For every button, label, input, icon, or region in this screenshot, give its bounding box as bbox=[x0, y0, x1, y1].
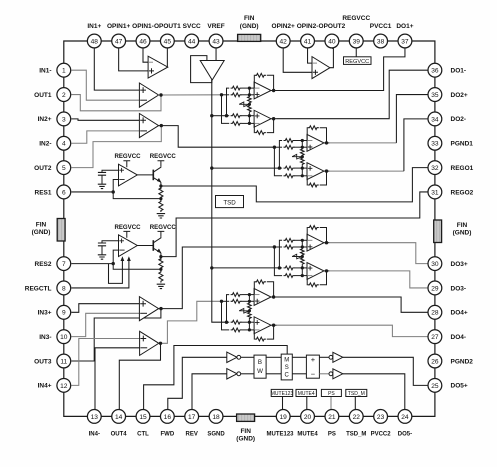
wire DO3- BTL3 lower output to pin29 bbox=[329, 271, 427, 288]
wire OUT1 pin2 to A1 output node bbox=[71, 95, 161, 111]
svg-text:FIN: FIN bbox=[240, 428, 251, 435]
svg-text:FWD: FWD bbox=[161, 431, 175, 437]
op-amp A4 bbox=[140, 331, 159, 355]
wire VREF rail bbox=[212, 80, 227, 322]
regulator block REG2 bbox=[98, 231, 165, 288]
pin 39 bbox=[349, 34, 363, 48]
svg-text:18: 18 bbox=[212, 414, 220, 421]
pin 41 bbox=[301, 34, 315, 48]
svg-text:48: 48 bbox=[91, 38, 99, 45]
svg-text:DO1-: DO1- bbox=[451, 68, 467, 75]
power amp block BTL1 (DO1) bbox=[220, 73, 277, 134]
wire IN1+ pin48 to A1 +input bbox=[94, 48, 139, 90]
svg-text:IN4-: IN4- bbox=[89, 431, 100, 437]
wire MSC to +/- lower bbox=[292, 373, 306, 375]
svg-text:RES2: RES2 bbox=[35, 261, 52, 268]
svg-text:(GND): (GND) bbox=[32, 229, 51, 236]
svg-text:4: 4 bbox=[62, 141, 66, 148]
op-amp A1 bbox=[139, 83, 158, 107]
svg-text:42: 42 bbox=[280, 38, 288, 45]
wire REG2 sense arrow 1 bbox=[109, 258, 123, 283]
wire +/- to buffer B2 bbox=[319, 373, 331, 375]
pin 42 bbox=[276, 34, 290, 48]
MUTE4 box and wire to pin20 bbox=[306, 397, 308, 410]
pin 40 bbox=[325, 34, 339, 48]
svg-text:REGVCC: REGVCC bbox=[150, 153, 177, 160]
wire IN4+ pin12 to A4 +input bbox=[71, 339, 139, 386]
pin 45 bbox=[160, 34, 174, 48]
svg-text:OUT3: OUT3 bbox=[34, 358, 52, 365]
svg-text:(GND): (GND) bbox=[236, 436, 255, 443]
pin 1 bbox=[57, 63, 71, 77]
wire RES2 pin7 to REG2 feedback bbox=[71, 263, 113, 265]
op-amp OP2 bbox=[312, 57, 330, 79]
svg-text:6: 6 bbox=[62, 189, 66, 196]
wire IN3+ pin9 to A3 +input bbox=[71, 304, 139, 313]
svg-text:DO1+: DO1+ bbox=[396, 23, 413, 30]
svg-text:40: 40 bbox=[328, 38, 336, 45]
pin 10 bbox=[57, 330, 71, 344]
wire A3 output to BTL3 input rail bbox=[159, 247, 275, 309]
inverter I2 bbox=[227, 369, 241, 379]
svg-text:REGO1: REGO1 bbox=[451, 165, 474, 172]
svg-text:OPIN1-: OPIN1- bbox=[132, 23, 154, 30]
pin 21 bbox=[325, 410, 339, 424]
wire DO4+ BTL4 upper output to pin28 bbox=[277, 297, 428, 312]
svg-text:PVCC1: PVCC1 bbox=[370, 23, 392, 30]
svg-text:3: 3 bbox=[62, 116, 66, 123]
svg-text:TSD: TSD bbox=[223, 199, 236, 206]
svg-text:(GND): (GND) bbox=[240, 23, 259, 30]
svg-text:12: 12 bbox=[60, 383, 68, 390]
pin 43 bbox=[209, 34, 223, 48]
svg-text:C: C bbox=[285, 372, 290, 378]
svg-text:47: 47 bbox=[115, 38, 123, 45]
svg-text:DO2-: DO2- bbox=[451, 116, 467, 123]
svg-text:SGND: SGND bbox=[207, 431, 225, 437]
node A3 output bbox=[159, 307, 162, 310]
wire VREF pin43 to buffer input bbox=[215, 48, 217, 65]
node VREF tap BTL2 bbox=[210, 166, 213, 169]
wire IN2- pin4 to A2 -input bbox=[71, 131, 139, 143]
svg-text:41: 41 bbox=[304, 38, 312, 45]
wire OUT2 pin5 to A2 output node bbox=[71, 126, 161, 168]
pin 44 bbox=[185, 34, 199, 48]
pin 25 bbox=[428, 378, 442, 392]
wire OP1 output to OPOUT1 pin45 bbox=[166, 48, 169, 67]
svg-text:REGVCC: REGVCC bbox=[114, 153, 141, 160]
svg-text:REGCTL: REGCTL bbox=[25, 285, 52, 292]
pin 46 bbox=[136, 34, 150, 48]
wire OPIN2+ pin42 to OP2 +input bbox=[283, 48, 313, 72]
pin 16 bbox=[160, 410, 174, 424]
FIN (GND) pad left bbox=[57, 219, 65, 242]
svg-text:IN3-: IN3- bbox=[39, 334, 51, 341]
wire REGO1 pin32 to REG1 output bbox=[161, 168, 428, 202]
svg-text:SVCC: SVCC bbox=[183, 23, 201, 30]
svg-text:DO3-: DO3- bbox=[451, 285, 467, 292]
op-amp OP1 bbox=[148, 56, 168, 78]
TSD_M box and wire to pin22 bbox=[354, 397, 356, 410]
svg-text:OPIN2+: OPIN2+ bbox=[272, 23, 296, 30]
svg-text:OUT2: OUT2 bbox=[34, 165, 52, 172]
buffer B2 bbox=[329, 369, 343, 379]
MUTE123 box and wire to pin19 bbox=[282, 397, 284, 410]
svg-text:DO5-: DO5- bbox=[398, 431, 412, 437]
wire DO4- BTL4 lower output to pin27 bbox=[277, 325, 428, 336]
svg-text:REGVCC: REGVCC bbox=[114, 224, 141, 231]
wire DO1+ BTL1 upper output to pin37 bbox=[277, 48, 405, 90]
svg-text:OUT1: OUT1 bbox=[34, 92, 52, 99]
TSD box bbox=[216, 196, 244, 208]
svg-text:37: 37 bbox=[401, 38, 409, 45]
node A1 output bbox=[159, 93, 162, 96]
pin 6 bbox=[57, 185, 71, 199]
wire RES1 pin6 to REG1 feedback bbox=[71, 191, 113, 193]
svg-text:PVCC2: PVCC2 bbox=[371, 431, 392, 437]
svg-text:38: 38 bbox=[377, 38, 385, 45]
svg-text:PS: PS bbox=[328, 391, 335, 397]
pin 11 bbox=[57, 354, 71, 368]
FIN (GND) pad top bbox=[238, 34, 261, 41]
wire IN3- pin10 to A3 -input bbox=[71, 313, 139, 336]
svg-text:OPOUT1: OPOUT1 bbox=[154, 23, 181, 30]
svg-text:21: 21 bbox=[328, 414, 336, 421]
wire OP2 output to OPOUT2 pin40 bbox=[330, 48, 334, 67]
svg-text:IN2-: IN2- bbox=[39, 141, 51, 148]
svg-text:OPIN2-: OPIN2- bbox=[297, 23, 319, 30]
wire OUT3 pin11 to A3 output node bbox=[71, 309, 161, 361]
svg-text:IN1-: IN1- bbox=[39, 68, 51, 75]
wire MSC to +/- upper bbox=[292, 356, 306, 358]
svg-text:MUTE123: MUTE123 bbox=[266, 431, 294, 437]
svg-text:46: 46 bbox=[139, 38, 147, 45]
svg-text:FIN: FIN bbox=[244, 15, 255, 22]
pin 13 bbox=[87, 410, 101, 424]
wire package outline chain bbox=[64, 41, 435, 416]
wire B/W to MSC upper bbox=[266, 356, 281, 358]
svg-text:27: 27 bbox=[431, 334, 439, 341]
power amp block BTL4 (DO4) bbox=[220, 280, 277, 341]
pin 20 bbox=[301, 410, 315, 424]
wire DO1- BTL1 lower output to pin36 bbox=[277, 70, 428, 119]
pin 33 bbox=[428, 136, 442, 150]
svg-text:14: 14 bbox=[115, 414, 123, 421]
pin 2 bbox=[57, 88, 71, 102]
MSC box bbox=[281, 354, 292, 380]
pin 27 bbox=[428, 330, 442, 344]
svg-text:CTL: CTL bbox=[137, 431, 149, 437]
pin 22 bbox=[349, 410, 363, 424]
power amp block BTL3 (DO3) bbox=[273, 226, 330, 287]
svg-text:MUTE4: MUTE4 bbox=[298, 391, 315, 397]
wire REV pin17 to inverter I2 bbox=[192, 374, 227, 409]
pin 35 bbox=[428, 88, 442, 102]
op-amp A2 bbox=[139, 114, 158, 138]
svg-text:43: 43 bbox=[212, 38, 220, 45]
svg-text:REV: REV bbox=[186, 431, 198, 437]
svg-text:28: 28 bbox=[431, 310, 439, 317]
polarity box +/- bbox=[306, 355, 319, 378]
svg-text:PGND1: PGND1 bbox=[451, 141, 474, 148]
wire IN1- pin1 to A1 -input bbox=[71, 70, 139, 100]
REGVCC box under pin39 bbox=[355, 48, 357, 57]
svg-text:DO5+: DO5+ bbox=[451, 383, 468, 390]
svg-text:OUT4: OUT4 bbox=[111, 431, 128, 437]
wire OPIN1+ pin47 to OP1 +input bbox=[119, 48, 149, 71]
svg-text:23: 23 bbox=[377, 414, 385, 421]
svg-text:DO4-: DO4- bbox=[451, 334, 467, 341]
pin 38 bbox=[374, 34, 388, 48]
buffer B1 bbox=[329, 352, 343, 362]
svg-text:8: 8 bbox=[62, 285, 66, 292]
svg-text:9: 9 bbox=[62, 310, 66, 317]
svg-text:45: 45 bbox=[164, 38, 172, 45]
svg-text:36: 36 bbox=[431, 68, 439, 75]
svg-text:REGVCC: REGVCC bbox=[342, 15, 370, 22]
svg-text:VREF: VREF bbox=[207, 23, 224, 30]
wire DO2+ BTL2 upper output to pin35 bbox=[329, 142, 396, 144]
svg-text:S: S bbox=[285, 365, 289, 371]
svg-text:44: 44 bbox=[188, 38, 196, 45]
svg-text:IN3+: IN3+ bbox=[38, 310, 52, 317]
wire OPIN2- pin41 to OP2 -input bbox=[308, 48, 313, 63]
wire VREF buffer feedback loop bbox=[191, 56, 212, 83]
svg-text:26: 26 bbox=[431, 358, 439, 365]
svg-text:RES1: RES1 bbox=[35, 189, 52, 196]
svg-text:32: 32 bbox=[431, 165, 439, 172]
svg-text:FIN: FIN bbox=[457, 222, 468, 229]
svg-text:DO3+: DO3+ bbox=[451, 261, 468, 268]
svg-text:25: 25 bbox=[431, 383, 439, 390]
wire DO3+ BTL3 upper output to pin30 bbox=[329, 243, 427, 264]
inverter I1 bbox=[227, 352, 241, 362]
svg-text:5: 5 bbox=[62, 165, 66, 172]
svg-text:(GND): (GND) bbox=[453, 230, 472, 237]
pin 7 bbox=[57, 257, 71, 271]
svg-text:33: 33 bbox=[431, 141, 439, 148]
svg-text:W: W bbox=[257, 368, 263, 375]
pin 47 bbox=[112, 34, 126, 48]
wire A1 output to BTL1 input rail bbox=[159, 94, 222, 96]
svg-text:10: 10 bbox=[60, 334, 68, 341]
svg-text:MUTE123: MUTE123 bbox=[271, 391, 294, 397]
wire I2 to B/W box bbox=[241, 373, 254, 375]
pin 18 bbox=[209, 410, 223, 424]
pin 19 bbox=[276, 410, 290, 424]
op-amp U-VREF buffer bbox=[200, 61, 224, 81]
op-amp A3 bbox=[139, 297, 158, 321]
svg-text:IN4+: IN4+ bbox=[38, 383, 52, 390]
svg-text:35: 35 bbox=[431, 92, 439, 99]
wire IN2+ pin3 to A2 +input bbox=[71, 119, 139, 120]
pin 36 bbox=[428, 63, 442, 77]
wire IN4- pin13 to A4 -input bbox=[95, 348, 139, 409]
node VREF tap BTL1 bbox=[210, 114, 213, 117]
wire DO2- BTL2 lower output to pin34 bbox=[329, 170, 404, 172]
svg-text:+: + bbox=[311, 355, 316, 364]
pin 29 bbox=[428, 281, 442, 295]
pin 48 bbox=[87, 34, 101, 48]
pin 3 bbox=[57, 112, 71, 126]
wire B/W to MSC lower bbox=[266, 373, 281, 375]
pin 17 bbox=[185, 410, 199, 424]
wire A2 output to BTL2 input rail bbox=[159, 126, 275, 148]
B/W box bbox=[254, 355, 266, 378]
svg-text:PGND2: PGND2 bbox=[451, 358, 474, 365]
wire I1 to B/W box bbox=[241, 356, 254, 358]
regulator block REG1 bbox=[98, 161, 165, 218]
wire DO5+ buffer B1 to pin25 bbox=[343, 357, 428, 385]
svg-text:FIN: FIN bbox=[36, 221, 47, 228]
svg-text:IN1+: IN1+ bbox=[87, 23, 101, 30]
node VREF tap BTL3 bbox=[210, 266, 213, 269]
wire +/- to buffer B1 bbox=[319, 356, 331, 358]
svg-text:IN2+: IN2+ bbox=[38, 116, 52, 123]
pin 28 bbox=[428, 305, 442, 319]
svg-text:DO2+: DO2+ bbox=[451, 92, 468, 99]
svg-text:7: 7 bbox=[62, 261, 66, 268]
svg-text:39: 39 bbox=[353, 38, 361, 45]
svg-text:TSD_M: TSD_M bbox=[348, 391, 365, 397]
pin 12 bbox=[57, 378, 71, 392]
node A2 output bbox=[160, 124, 163, 127]
FIN (GND) pad bottom bbox=[237, 414, 255, 421]
svg-text:2: 2 bbox=[62, 92, 66, 99]
svg-text:TSD_M: TSD_M bbox=[346, 431, 366, 437]
svg-text:17: 17 bbox=[188, 414, 196, 421]
svg-text:30: 30 bbox=[431, 261, 439, 268]
svg-text:29: 29 bbox=[431, 285, 439, 292]
svg-text:1: 1 bbox=[62, 68, 66, 75]
pin 34 bbox=[428, 112, 442, 126]
svg-text:REGO2: REGO2 bbox=[451, 189, 474, 196]
svg-text:OPIN1+: OPIN1+ bbox=[107, 23, 131, 30]
pin 15 bbox=[136, 410, 150, 424]
pin 32 bbox=[428, 161, 442, 175]
svg-text:MUTE4: MUTE4 bbox=[297, 431, 318, 437]
svg-text:11: 11 bbox=[60, 358, 67, 365]
pin 37 bbox=[398, 34, 412, 48]
power amp block BTL2 (DO2) bbox=[273, 126, 330, 187]
svg-text:OPOUT2: OPOUT2 bbox=[319, 23, 346, 30]
svg-text:M: M bbox=[284, 357, 289, 363]
svg-text:−: − bbox=[311, 370, 316, 379]
svg-text:13: 13 bbox=[91, 414, 99, 421]
svg-text:20: 20 bbox=[304, 414, 312, 421]
svg-text:24: 24 bbox=[401, 414, 409, 421]
svg-text:DO4+: DO4+ bbox=[451, 310, 468, 317]
wire REGO2 pin31 to REG2 output bbox=[161, 192, 428, 257]
pin 24 bbox=[398, 410, 412, 424]
svg-text:B: B bbox=[258, 359, 262, 366]
wire A4 output to BTL4 input rail bbox=[159, 301, 222, 343]
pin 26 bbox=[428, 354, 442, 368]
svg-text:REGVCC: REGVCC bbox=[345, 59, 369, 65]
pin 30 bbox=[428, 257, 442, 271]
FIN (GND) pad right bbox=[434, 220, 442, 243]
wire REGCTL pin8 to REG2 sense arrow 2 bbox=[71, 258, 129, 288]
svg-text:16: 16 bbox=[164, 414, 172, 421]
wire FWD pin16 to inverter I1 bbox=[168, 357, 227, 409]
pin 31 bbox=[428, 185, 442, 199]
wire DO5- buffer B2 to pin24 bbox=[343, 374, 405, 409]
svg-text:REGVCC: REGVCC bbox=[150, 224, 177, 231]
node A4 output bbox=[159, 342, 162, 345]
pin 4 bbox=[57, 136, 71, 150]
pin 9 bbox=[57, 305, 71, 319]
pin 8 bbox=[57, 281, 71, 295]
svg-text:31: 31 bbox=[431, 189, 439, 196]
pin 14 bbox=[112, 410, 126, 424]
wire OUT4 pin14 to A4 output node bbox=[119, 343, 160, 409]
wire CTL pin15 to MSC box bbox=[144, 346, 288, 410]
svg-text:19: 19 bbox=[280, 414, 288, 421]
svg-text:PS: PS bbox=[328, 431, 336, 437]
pin 5 bbox=[57, 161, 71, 175]
svg-text:34: 34 bbox=[431, 116, 439, 123]
wire OPIN1- pin46 to OP1 -input bbox=[143, 48, 149, 62]
svg-text:22: 22 bbox=[353, 414, 361, 421]
PS box and wire to pin21 bbox=[330, 397, 332, 410]
svg-text:15: 15 bbox=[139, 414, 147, 421]
pin 23 bbox=[374, 410, 388, 424]
